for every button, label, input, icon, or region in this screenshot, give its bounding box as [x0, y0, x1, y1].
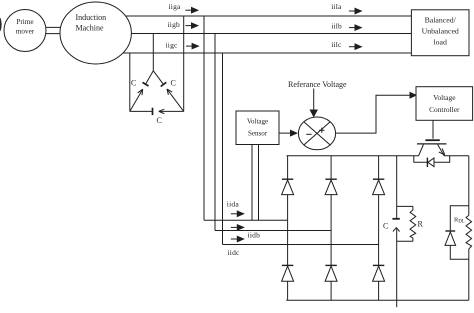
svg-text:iida: iida [227, 200, 240, 209]
voltage controller box [416, 87, 473, 121]
summing junction [298, 117, 335, 150]
shaft coupling [46, 27, 61, 33]
wire rectifier input c [223, 244, 379, 246]
svg-text:C: C [157, 116, 162, 125]
wire dump branch vertical [468, 156, 470, 300]
wire sensor lead 2 [258, 145, 260, 221]
diode D3 [378, 156, 380, 179]
capacitor C filter [396, 156, 398, 218]
svg-text:iigb: iigb [168, 20, 181, 29]
wire tap a to rectifier [203, 16, 205, 220]
svg-text:C: C [383, 222, 388, 231]
diode D4 [287, 220, 289, 265]
arrow reference into summer [313, 89, 315, 111]
svg-text:iiga: iiga [169, 2, 182, 11]
wire summer to controller [336, 95, 411, 133]
wire phase c line [123, 52, 411, 54]
svg-text:C: C [131, 79, 136, 88]
prime mover [4, 10, 46, 52]
arrow idb [231, 226, 238, 228]
diode D1 [287, 156, 289, 179]
svg-text:mover: mover [16, 28, 35, 36]
capacitor C right [153, 71, 163, 85]
diode D5 [330, 231, 332, 266]
wire cap bank drop c [129, 53, 131, 111]
svg-text:Induction: Induction [76, 13, 107, 22]
voltage sensor box [236, 111, 279, 145]
resistor RDL [466, 215, 472, 249]
wire sensor lead 1 [251, 145, 253, 221]
diode D6 [378, 245, 380, 266]
wire emitter to dump branch [444, 155, 469, 157]
wire tap b to rectifier [214, 34, 216, 231]
svg-text:Balanced/: Balanced/ [425, 16, 457, 25]
load box [411, 10, 469, 56]
wire rectifier input a [204, 219, 288, 221]
wire cap bank drop a [183, 16, 185, 111]
capacitor C left [146, 71, 154, 84]
svg-text:Voltage: Voltage [247, 118, 268, 126]
diode D2 [330, 156, 332, 179]
svg-text:R: R [418, 220, 424, 229]
svg-text:load: load [433, 38, 447, 47]
svg-text:Controller: Controller [429, 105, 460, 114]
wire phase b line [131, 33, 411, 35]
svg-text:Sensor: Sensor [248, 130, 268, 138]
svg-text:Referance Voltage: Referance Voltage [288, 80, 347, 89]
resistor R [397, 206, 413, 241]
svg-text:iilc: iilc [331, 40, 342, 49]
svg-text:iigc: iigc [166, 40, 179, 49]
svg-text:Prime: Prime [16, 18, 33, 26]
wire dc top rail [287, 155, 419, 157]
svg-text:Unbalanced: Unbalanced [422, 27, 459, 36]
wire gate lead [432, 120, 434, 139]
wire phase a line [126, 15, 412, 17]
wire rectifier input b [215, 230, 331, 232]
svg-text:Voltage: Voltage [433, 93, 456, 102]
diode D7 freewheel loop [414, 156, 450, 163]
svg-text:C: C [171, 79, 176, 88]
left edge fragment [0, 18, 1, 31]
svg-text:iidb: iidb [248, 230, 261, 239]
induction machine [60, 2, 131, 64]
svg-text:iidc: iidc [228, 248, 241, 257]
svg-text:Machine: Machine [76, 24, 104, 33]
transistor Q1 IGBT [425, 139, 439, 141]
svg-text:iila: iila [331, 2, 342, 11]
wire cap bank drop b [152, 34, 154, 71]
diode D8 dump loop [450, 206, 469, 259]
arrow idc [231, 238, 238, 240]
wire dc bottom rail [286, 299, 469, 301]
arrow sensor to summer [279, 132, 291, 134]
wire tap c to rectifier [222, 53, 224, 245]
capacitor C bottom [130, 110, 153, 112]
svg-text:iilb: iilb [331, 22, 342, 31]
